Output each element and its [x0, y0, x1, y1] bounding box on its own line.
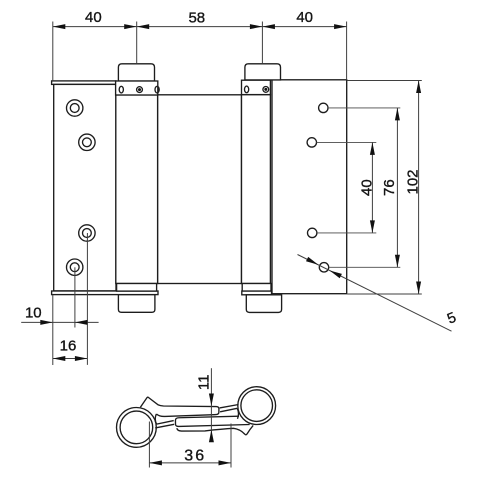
taper strip to right ring lower line	[220, 408, 237, 412]
dimension line top	[53, 26, 347, 28]
extension line barrel 2 center	[261, 22, 263, 64]
upper bar (center plate edge view)	[140, 397, 219, 416]
barrel 2 band hole left	[245, 86, 249, 93]
right leaf fold edge line	[177, 425, 253, 434]
spring barrel 1 body	[116, 95, 158, 284]
barrel 1 tension pin	[137, 87, 143, 93]
leader hole A	[328, 107, 400, 109]
taper strip to left ring lower line	[157, 421, 174, 425]
left plate screw hole 2	[79, 134, 95, 150]
extension line hole column 2	[86, 233, 88, 365]
taper strip to right ring upper line	[220, 405, 239, 408]
svg-text:10: 10	[25, 304, 42, 321]
barrel 2 bottom lip	[242, 291, 272, 295]
leader line 5	[298, 255, 452, 332]
right plate hole C	[308, 228, 317, 237]
left plate screw hole 3	[79, 225, 95, 241]
right barrel ring outer	[238, 387, 276, 425]
wrap arc at left ring	[155, 414, 156, 424]
dimension line 102 vertical	[418, 81, 420, 295]
left plate screw hole 1	[67, 100, 83, 116]
dimension line 16	[53, 358, 88, 360]
barrel 1 band hole left	[119, 86, 123, 93]
svg-text:76: 76	[381, 179, 398, 196]
dimension line 11 vertical	[210, 368, 212, 442]
right barrel ring inner	[241, 390, 273, 422]
svg-text:40: 40	[358, 179, 375, 196]
barrel 2 adjuster band	[242, 80, 271, 94]
left barrel ring inner	[120, 411, 153, 444]
leader arrowheads at hole D	[306, 257, 318, 265]
leader hole C	[317, 232, 376, 234]
barrel 1 top cap	[118, 64, 154, 81]
barrel 2 tension pin	[263, 87, 269, 93]
barrel 1 bottom collar	[117, 284, 157, 292]
dimension line 40 vertical	[371, 142, 373, 233]
barrel 1 band hole right	[155, 86, 159, 93]
right leaf plate	[270, 80, 346, 294]
extension line plate bottom	[347, 293, 422, 295]
svg-text:36: 36	[184, 447, 206, 464]
spring barrel 2 body	[242, 95, 271, 284]
left barrel ring outer	[116, 408, 156, 448]
right plate hole B	[307, 138, 316, 147]
extension line right plate edge	[346, 22, 348, 80]
svg-text:11: 11	[196, 375, 213, 391]
left leaf bottom lip	[52, 291, 158, 295]
dimension line 36	[149, 462, 231, 464]
dimension line 76 vertical	[396, 108, 398, 267]
barrel 2 bottom shoe	[246, 295, 281, 313]
svg-text:40: 40	[85, 9, 102, 26]
dimension line 10	[21, 321, 98, 323]
barrel 2 top cap	[245, 64, 281, 80]
barrel 2 bottom collar	[242, 284, 271, 292]
right leaf fold line	[271, 80, 273, 294]
leader hole B	[317, 141, 377, 143]
extension line barrel 1 center	[136, 22, 138, 64]
right plate hole D	[319, 263, 328, 272]
left plate screw hole 4	[67, 259, 83, 275]
leader hole D	[329, 266, 401, 268]
arrowheads top dimension	[53, 24, 66, 29]
left leaf plate face	[54, 84, 116, 291]
svg-text:40: 40	[296, 9, 313, 26]
extension line left plate edge	[52, 22, 54, 81]
svg-text:102: 102	[404, 169, 421, 194]
barrel 1 bottom shoe	[118, 295, 154, 313]
svg-text:5: 5	[445, 310, 458, 328]
left leaf top lip	[52, 81, 116, 85]
extension line 36 left	[148, 422, 150, 468]
taper strip to left ring upper line	[155, 424, 174, 428]
extension line hole column 1	[74, 267, 76, 327]
extension line plate top	[347, 80, 422, 82]
svg-text:58: 58	[188, 9, 205, 26]
right plate hole A	[319, 103, 328, 112]
wrap arc at right ring	[237, 408, 238, 419]
svg-text:16: 16	[60, 337, 77, 354]
extension line 36 right	[230, 424, 232, 468]
center web plate	[158, 95, 242, 284]
lower bar (right leaf edge view)	[175, 416, 249, 426]
barrel 1 adjuster band	[116, 81, 158, 95]
extension line plate edge lower	[52, 295, 54, 365]
